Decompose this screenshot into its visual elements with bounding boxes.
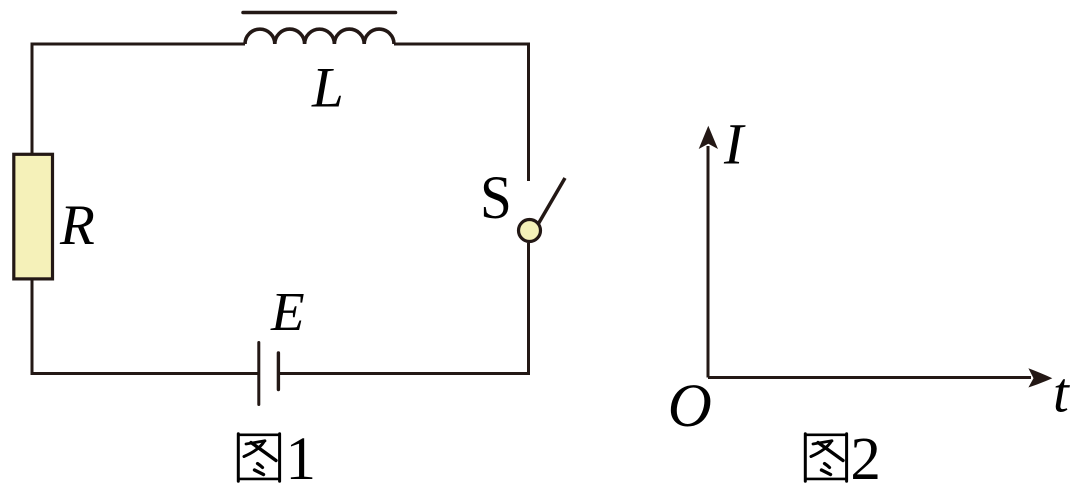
- svg-text:t: t: [1053, 362, 1070, 425]
- wire: left vertical upper + top wire to inductor: [32, 44, 245, 154]
- inductor iron core bar: [243, 11, 396, 15]
- svg-text:R: R: [59, 194, 95, 257]
- wire: top wire from inductor to top-right corner + right vertical down to switch gap: [394, 44, 529, 181]
- arrowhead of I axis: [699, 126, 718, 149]
- svg-text:S: S: [480, 163, 512, 231]
- svg-text:E: E: [270, 281, 305, 342]
- inductor L (5 loops): [245, 29, 394, 44]
- battery E long plate (positive): [257, 343, 260, 405]
- caption 图2: hanzi 图 (drawn): [805, 434, 846, 482]
- wire: from switch down + bottom wire to battery short plate: [280, 243, 529, 374]
- switch S lever: [539, 178, 566, 224]
- svg-text:I: I: [723, 112, 746, 177]
- graph axes: t axis (horizontal): [708, 376, 1031, 379]
- svg-text:1: 1: [286, 426, 317, 492]
- arrowhead of t axis: [1028, 368, 1052, 387]
- svg-text:O: O: [668, 373, 712, 440]
- battery E short plate (negative): [277, 353, 280, 390]
- caption 图1: hanzi 图 (drawn): [238, 434, 279, 482]
- svg-text:2: 2: [850, 426, 881, 492]
- graph axes: I axis (vertical): [707, 146, 710, 378]
- switch S contact circle: [519, 220, 541, 242]
- wire: bottom wire from battery long plate to bottom-left corner + left vertical to resistor: [32, 280, 258, 374]
- resistor R body: [14, 154, 53, 279]
- svg-text:L: L: [311, 57, 344, 120]
